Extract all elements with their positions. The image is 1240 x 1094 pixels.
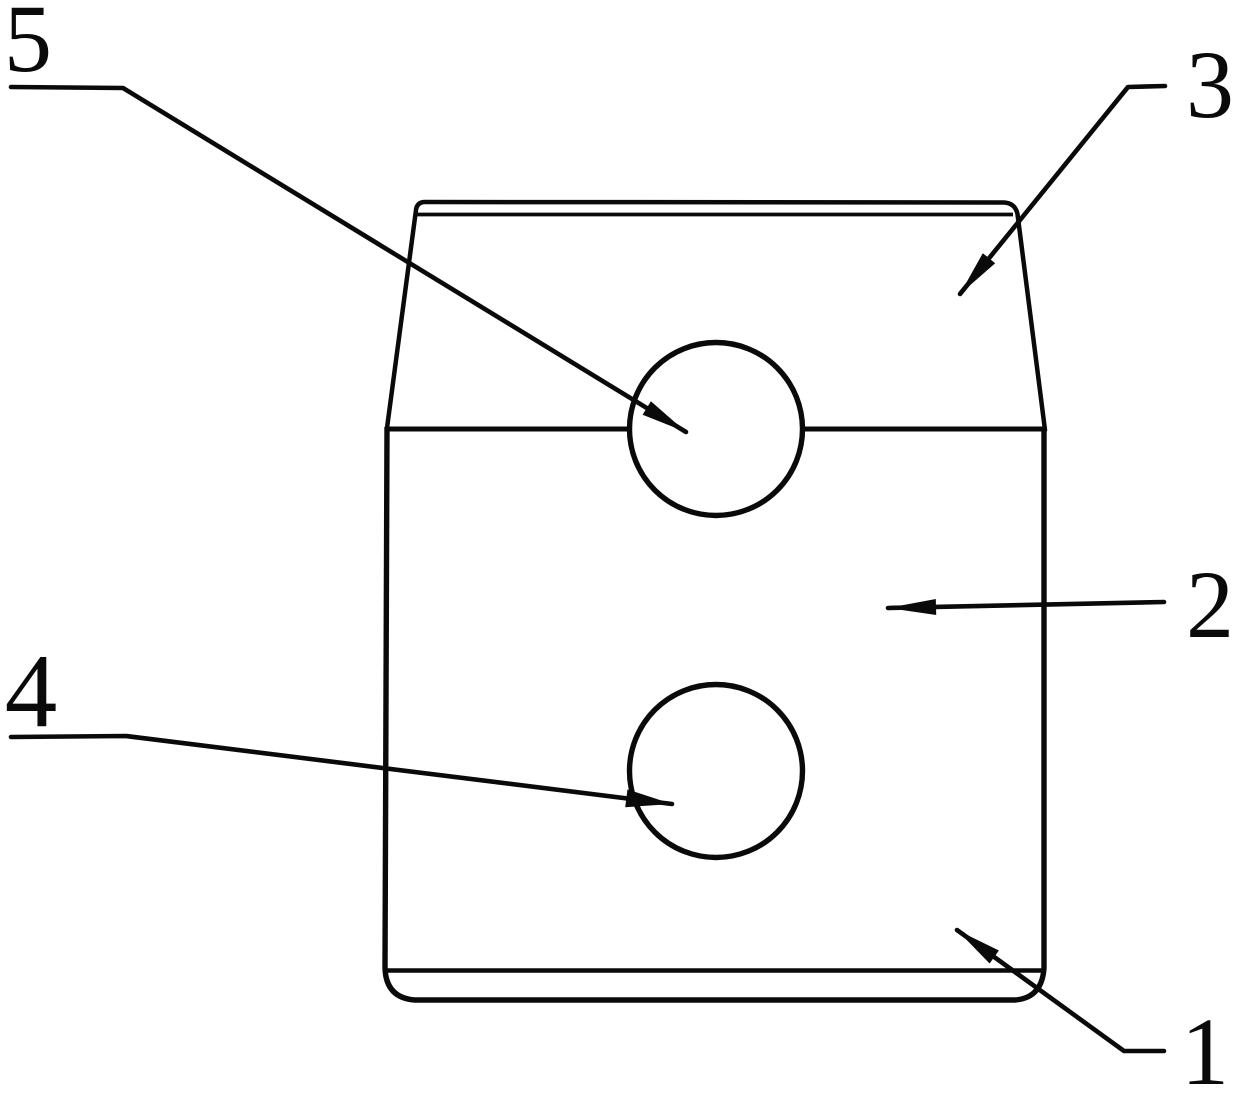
- svg-text:4: 4: [5, 632, 58, 749]
- arrowhead 3: [960, 253, 995, 294]
- top band inner line: [416, 213, 1013, 217]
- leader line 4: [11, 736, 672, 804]
- body outline (part 2 block, lower section): [385, 428, 1044, 1000]
- svg-text:3: 3: [1186, 31, 1234, 138]
- mid parting line between parts 2 and 3: [386, 427, 1044, 432]
- arrowhead 4: [625, 789, 672, 807]
- top cap outline (part 3, tapered upper section): [387, 202, 1045, 430]
- arrowhead 2: [888, 599, 936, 615]
- svg-text:2: 2: [1186, 551, 1234, 658]
- leader line 2: [888, 602, 1164, 608]
- svg-text:5: 5: [4, 0, 52, 92]
- hole 5 (upper circle): [630, 343, 803, 516]
- svg-text:1: 1: [1181, 998, 1229, 1094]
- arrowhead 5: [643, 401, 686, 432]
- hole 4 (lower circle): [630, 685, 803, 858]
- bottom band inner line: [386, 968, 1043, 972]
- leader line 3: [960, 86, 1165, 294]
- leader line 5: [11, 87, 686, 432]
- arrowhead 1: [957, 930, 999, 964]
- leader line 1: [957, 930, 1164, 1051]
